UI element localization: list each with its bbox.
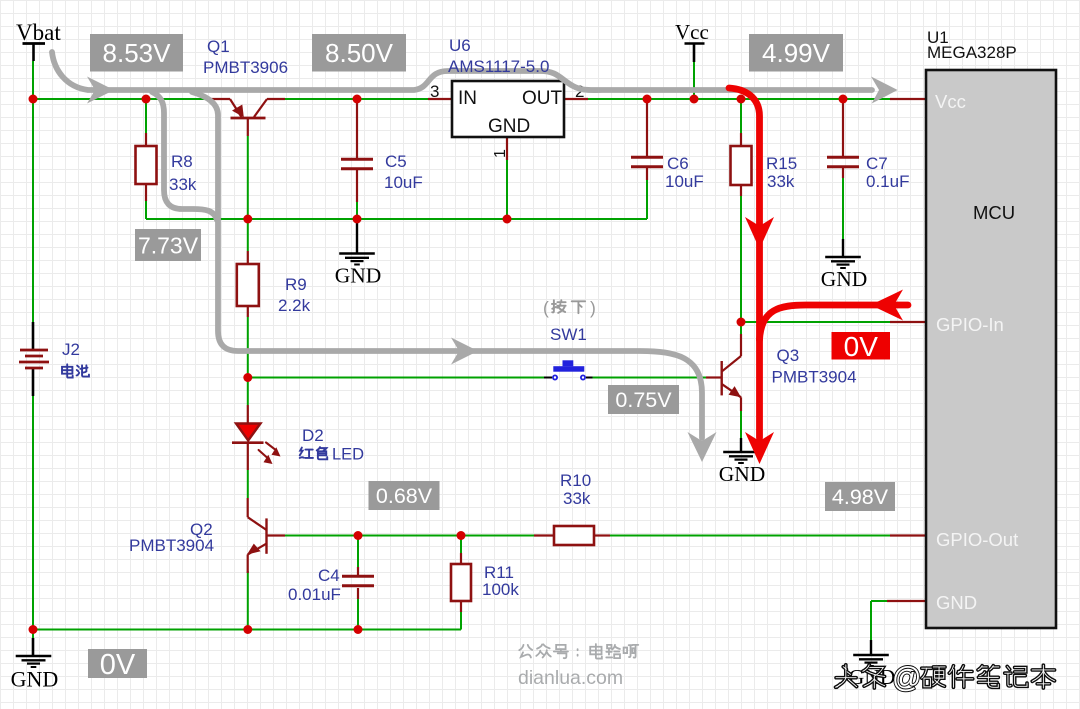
svg-text:): )	[590, 298, 596, 318]
svg-text:0.68V: 0.68V	[376, 484, 433, 508]
svg-text:MEGA328P: MEGA328P	[927, 43, 1017, 62]
svg-text:U6: U6	[449, 36, 471, 55]
svg-text:PMBT3904: PMBT3904	[772, 368, 857, 387]
svg-text:C4: C4	[318, 566, 340, 585]
svg-text:GPIO-In: GPIO-In	[936, 314, 1004, 335]
svg-text:dianlua.com: dianlua.com	[518, 667, 623, 689]
svg-text:Vcc: Vcc	[675, 20, 709, 44]
svg-text:0.01uF: 0.01uF	[288, 585, 341, 604]
svg-text:Vbat: Vbat	[16, 20, 61, 45]
svg-text:GND: GND	[719, 462, 766, 486]
svg-text:GPIO-Out: GPIO-Out	[936, 529, 1018, 550]
svg-text:OUT: OUT	[522, 88, 563, 109]
svg-text:Q1: Q1	[207, 37, 230, 56]
svg-text:1: 1	[492, 149, 509, 158]
svg-text:0V: 0V	[844, 331, 879, 362]
svg-text:4.98V: 4.98V	[832, 485, 889, 509]
svg-text:GND: GND	[821, 267, 868, 291]
svg-text:100k: 100k	[482, 580, 519, 599]
svg-text:Vcc: Vcc	[935, 91, 966, 112]
svg-text:R10: R10	[560, 471, 591, 490]
svg-text:33k: 33k	[563, 489, 591, 508]
svg-text:C6: C6	[667, 154, 689, 173]
svg-text:R9: R9	[285, 275, 307, 294]
svg-text:0.75V: 0.75V	[615, 388, 672, 412]
svg-text:33k: 33k	[169, 175, 197, 194]
svg-text:2.2k: 2.2k	[278, 296, 311, 315]
svg-text:R8: R8	[171, 152, 193, 171]
svg-text:Q3: Q3	[777, 346, 800, 365]
svg-text:GND: GND	[488, 116, 530, 137]
svg-text:10uF: 10uF	[665, 172, 704, 191]
svg-text:SW1: SW1	[550, 325, 587, 344]
svg-text:R15: R15	[766, 154, 797, 173]
svg-text:IN: IN	[458, 88, 477, 109]
svg-text:33k: 33k	[767, 172, 795, 191]
svg-text:8.53V: 8.53V	[103, 38, 172, 68]
svg-text:10uF: 10uF	[384, 173, 423, 192]
svg-text:8.50V: 8.50V	[325, 38, 394, 68]
svg-text:MCU: MCU	[973, 202, 1015, 223]
svg-text:J2: J2	[62, 340, 80, 359]
svg-text:D2: D2	[302, 426, 324, 445]
svg-text:LED: LED	[332, 446, 364, 464]
svg-text:4.99V: 4.99V	[762, 38, 831, 68]
svg-text:3: 3	[430, 82, 439, 101]
svg-text:7.73V: 7.73V	[138, 232, 199, 258]
svg-text:PMBT3904: PMBT3904	[129, 536, 214, 555]
svg-text:AMS1117-5.0: AMS1117-5.0	[448, 57, 549, 76]
svg-text:GND: GND	[936, 592, 977, 613]
svg-text:(: (	[543, 298, 549, 318]
svg-text:C5: C5	[385, 152, 407, 171]
svg-text:GND: GND	[335, 264, 382, 288]
svg-text:C7: C7	[866, 154, 888, 173]
svg-text:0V: 0V	[100, 649, 136, 681]
svg-text:@: @	[892, 662, 921, 694]
svg-text:GND: GND	[11, 667, 59, 692]
svg-text:0.1uF: 0.1uF	[866, 172, 909, 191]
svg-text:PMBT3906: PMBT3906	[203, 58, 288, 77]
